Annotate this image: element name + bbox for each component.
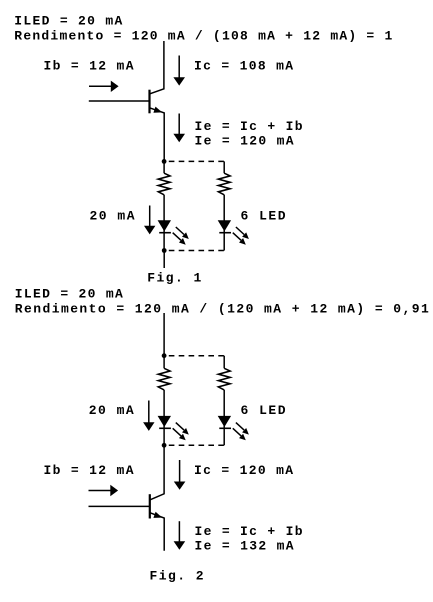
wire right branch upper (fig1) (223, 161, 225, 173)
svg-text:Rendimento = 120 mA / (108 mA: Rendimento = 120 mA / (108 mA + 12 mA) =… (14, 29, 392, 44)
svg-text:Ie = 132 mA: Ie = 132 mA (195, 538, 294, 553)
ILED arrow 20mA (fig2) (143, 401, 154, 431)
svg-text:Ie = 120 mA: Ie = 120 mA (195, 133, 294, 148)
wire left branch lower (fig2) (163, 390, 165, 445)
svg-text:20 mA: 20 mA (89, 403, 134, 418)
svg-text:Rendimento = 120 mA / (120 mA: Rendimento = 120 mA / (120 mA + 12 mA) =… (15, 301, 429, 316)
transistor Q fig2: emitter with arrow (150, 512, 164, 551)
Ic current arrow (fig2) (174, 460, 186, 490)
LED right (fig1) (218, 220, 249, 244)
wire left branch upper (fig1) (163, 161, 165, 173)
wire left branch upper (fig2) (163, 356, 165, 369)
LED left (fig2) (158, 416, 189, 440)
Ib current arrow (fig1) (89, 81, 119, 92)
svg-text:Ib = 12 mA: Ib = 12 mA (44, 463, 134, 478)
svg-text:6 LED: 6 LED (241, 403, 286, 418)
resistor left (fig1) (158, 173, 170, 195)
Ic current arrow (fig1) (173, 56, 185, 86)
transistor Q fig2: base bar (149, 494, 151, 518)
node junction dot bottom (fig1) (162, 248, 167, 253)
transistor Q fig1: base bar (148, 90, 150, 114)
wire base (fig1) (89, 100, 150, 102)
resistor right (fig1) (218, 173, 230, 195)
dashed wire top (fig1) (169, 160, 224, 162)
dashed wire bottom (fig1) (169, 250, 224, 252)
node junction dot bottom (fig2) (162, 443, 167, 448)
LED right (fig2) (218, 416, 249, 440)
node junction dot top (fig2) (162, 353, 167, 358)
Ib current arrow (fig2) (89, 485, 119, 496)
svg-text:ILED = 20 mA: ILED = 20 mA (15, 287, 123, 302)
ILED arrow 20mA (fig1) (144, 206, 155, 235)
svg-text:Ie = Ic + Ib: Ie = Ic + Ib (195, 524, 303, 539)
svg-text:6 LED: 6 LED (241, 209, 286, 224)
LED left (fig1) (158, 220, 189, 244)
svg-text:20 mA: 20 mA (90, 208, 135, 223)
transistor Q fig1: emitter with arrow (150, 107, 165, 162)
wire right branch upper (fig2) (223, 356, 225, 369)
wire left branch lower (fig1) (163, 195, 165, 251)
Ie current arrow (fig1) (173, 114, 185, 143)
svg-text:Ic = 120 mA: Ic = 120 mA (194, 463, 293, 478)
wire top vertical (fig2) (163, 313, 165, 356)
svg-text:Ic = 108 mA: Ic = 108 mA (194, 59, 293, 74)
wire collector vertical (fig2) (150, 445, 164, 500)
svg-text:ILED = 20 mA: ILED = 20 mA (14, 14, 122, 29)
wire right branch lower (fig2) (223, 390, 225, 445)
wire right branch lower (fig1) (223, 195, 225, 251)
resistor right (fig2) (218, 368, 230, 390)
node junction dot top (fig1) (162, 159, 167, 164)
wire emitter tail (fig1) (163, 251, 165, 269)
Ie current arrow (fig2) (174, 521, 186, 550)
dashed wire top (fig2) (169, 355, 224, 357)
dashed wire bottom (fig2) (169, 444, 224, 446)
wire base (fig2) (89, 505, 150, 507)
svg-text:Ib = 12 mA: Ib = 12 mA (44, 59, 134, 74)
resistor left (fig2) (158, 368, 170, 390)
svg-text:Ie = Ic + Ib: Ie = Ic + Ib (195, 119, 303, 134)
wire collector vertical (fig1) (150, 41, 164, 94)
